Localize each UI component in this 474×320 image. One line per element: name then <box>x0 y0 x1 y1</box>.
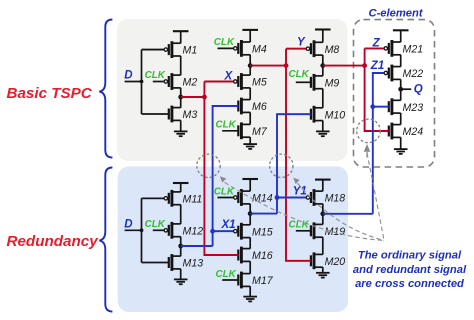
svg-text:Q: Q <box>414 83 423 95</box>
svg-text:Y: Y <box>297 36 306 48</box>
svg-text:CLK: CLK <box>214 37 235 48</box>
svg-text:M8: M8 <box>325 44 340 56</box>
svg-text:CLK: CLK <box>216 269 237 280</box>
wire M14 source to node Y1 <box>249 204 251 214</box>
svg-text:M3: M3 <box>183 109 198 121</box>
wire node to M15 drain <box>249 214 251 225</box>
wire M20 source to ground <box>322 267 324 272</box>
transistor M12 (PMOS) <box>153 222 181 239</box>
transistor M11 (PMOS) <box>142 190 181 207</box>
wire M10 source to ground <box>322 121 324 131</box>
node Q <box>398 87 403 92</box>
ground redundant stage 1 <box>174 279 188 284</box>
svg-text:Redundancy: Redundancy <box>7 233 100 250</box>
wire M13 source to ground <box>180 269 182 279</box>
wire M18 source to node Z1 <box>322 204 324 214</box>
svg-text:M23: M23 <box>403 102 424 114</box>
transistor M22 (PMOS) <box>373 65 401 82</box>
wire node Y to M5 drain <box>249 66 251 76</box>
transistor M1 (PMOS) <box>142 41 181 58</box>
wire M21 source to M22 drain <box>400 55 402 67</box>
svg-text:CLK: CLK <box>145 219 166 230</box>
wire M4 source to node Y <box>249 55 251 66</box>
dashed leader line to Z/Z1 circle <box>367 153 384 240</box>
svg-text:C-element: C-element <box>369 8 424 20</box>
node stage 3 output Z <box>320 63 325 68</box>
svg-text:The ordinary signal: The ordinary signal <box>358 250 462 262</box>
wire D input (bottom) <box>125 229 142 231</box>
transistor M18 (PMOS) <box>277 189 323 206</box>
svg-text:CLK: CLK <box>289 69 310 80</box>
wire M11 source to M12 drain <box>180 205 182 224</box>
svg-text:are cross connected: are cross connected <box>355 278 465 290</box>
transistor M21 (PMOS) <box>365 40 401 57</box>
arrowhead pointing to X/X1 circle <box>220 176 226 182</box>
ground redundant stage 2 <box>243 297 257 302</box>
wire M2 source to M3 drain (node X origin) <box>180 88 182 108</box>
transistor M16 (NMOS) <box>204 247 250 264</box>
transistor M5 (PMOS) <box>204 73 250 90</box>
wire M23 source to M24 drain <box>400 113 402 125</box>
transistor M2 (PMOS) <box>153 73 181 90</box>
transistor M20 (NMOS) <box>286 252 323 269</box>
vdd rail redundant stage 3 <box>315 180 331 192</box>
wire M8 source to node Z <box>322 55 324 66</box>
transistor M23 (NMOS) <box>373 98 401 115</box>
wire D input (top) <box>125 81 142 83</box>
wire M6 source to M7 drain <box>249 112 251 124</box>
svg-text:Basic TSPC: Basic TSPC <box>7 85 93 102</box>
wire D gate bus stage 1 <box>142 50 164 114</box>
svg-text:CLK: CLK <box>145 70 166 81</box>
node X junction <box>202 95 207 100</box>
transistor M10 (NMOS) <box>277 106 323 123</box>
brace for Basic TSPC section <box>99 20 112 158</box>
wire net X1 (blue): redundant stage1 output up to M15 gate and M6 gate <box>181 106 239 246</box>
dashed circle cross-connection Z/Z1 <box>357 119 381 143</box>
wire M5 source to M6 drain <box>249 88 251 100</box>
background panel Redundancy (blue rounded box) <box>118 167 348 313</box>
node X1 junction <box>210 229 215 234</box>
C-element dashed box <box>354 20 435 167</box>
node redundant stage 2 output <box>248 211 253 216</box>
wire net X (red): stage1 output to M5 gate and down to M16 gate <box>181 82 239 256</box>
vdd rail stage 1 <box>173 31 189 43</box>
svg-text:M2: M2 <box>183 77 198 89</box>
dashed circle cross-connection X/X1 <box>197 154 220 177</box>
node D junction (bottom) <box>140 228 144 232</box>
svg-text:M24: M24 <box>403 126 424 138</box>
transistor M19 (NMOS) <box>296 222 323 239</box>
svg-text:CLK: CLK <box>214 186 235 197</box>
node Z junction <box>362 63 367 68</box>
svg-text:X1: X1 <box>221 219 236 231</box>
transistor M14 (PMOS) <box>218 189 251 206</box>
wire M12 source to M13 drain <box>180 237 182 257</box>
svg-text:M14: M14 <box>252 193 273 205</box>
svg-text:and redundant signal: and redundant signal <box>353 264 467 276</box>
transistor M15 (PMOS) <box>213 223 251 240</box>
wire net Y1 (blue): redundant stage2 output up to M18 gate and M10 gate <box>250 114 311 213</box>
wire net Y (red): stage2 output to M8 gate and down to M20 gate <box>250 49 311 261</box>
wire M7 source to ground <box>249 137 251 143</box>
ground stage 3 <box>316 131 330 136</box>
wire M15 source to M16 drain <box>249 238 251 249</box>
svg-text:D: D <box>124 218 132 230</box>
wire M17 source to ground <box>249 286 251 296</box>
dashed leader line to Y/Y1 circle <box>298 183 385 240</box>
svg-text:M10: M10 <box>325 109 346 121</box>
node redundant stage 1 output <box>178 244 183 249</box>
svg-text:M18: M18 <box>325 193 346 205</box>
transistor M8 (PMOS) <box>286 40 323 57</box>
transistor M24 (NMOS) <box>365 123 401 140</box>
transistor M6 (NMOS) <box>213 98 251 115</box>
svg-text:M5: M5 <box>252 77 267 89</box>
svg-text:X: X <box>224 70 234 82</box>
wire M3 source to ground <box>180 120 182 131</box>
svg-text:M7: M7 <box>252 126 268 138</box>
dashed leader line to X/X1 circle <box>225 182 385 240</box>
wire M16 source to M17 drain <box>249 261 251 273</box>
wire node Z to M9 drain <box>322 66 324 76</box>
transistor M13 (NMOS) <box>142 254 181 271</box>
vdd rail C-element <box>393 30 409 42</box>
svg-text:M15: M15 <box>252 226 273 238</box>
svg-text:M9: M9 <box>325 77 340 89</box>
transistor M3 (NMOS) <box>142 106 181 123</box>
vdd rail redundant stage 1 <box>173 183 189 192</box>
wire M24 source to ground <box>400 137 402 148</box>
ground stage 2 <box>243 144 257 149</box>
node Z1 junction <box>370 104 375 109</box>
wire net Z1 (blue): redundant stage3 output up to M22 gate and M23 gate <box>323 73 389 214</box>
transistor M4 (PMOS) <box>218 40 251 57</box>
ground C-element <box>394 149 408 154</box>
vdd rail stage 3 <box>315 30 331 43</box>
svg-text:CLK: CLK <box>216 120 237 131</box>
ground stage 1 <box>174 131 188 136</box>
arrowhead pointing to Y/Y1 circle <box>293 178 299 184</box>
node D junction (top) <box>140 80 144 84</box>
node redundant stage 3 output <box>320 211 325 216</box>
svg-text:D: D <box>124 70 132 82</box>
dashed circle cross-connection Y/Y1 <box>270 154 293 177</box>
svg-text:M17: M17 <box>252 275 274 287</box>
svg-text:M4: M4 <box>252 44 267 56</box>
svg-text:M20: M20 <box>325 256 346 268</box>
wire M22 source to node Q <box>400 79 402 100</box>
wire node to M19 drain <box>322 214 324 225</box>
node Y1 junction <box>275 195 280 200</box>
node stage 2 output Y <box>248 63 253 68</box>
transistor M9 (NMOS) <box>296 74 323 91</box>
svg-text:M22: M22 <box>403 68 424 80</box>
vdd rail redundant stage 2 <box>242 179 258 191</box>
background panel Basic TSPC (gray rounded box) <box>117 19 348 161</box>
wire D gate bus redundant stage 1 <box>142 198 164 262</box>
vdd rail stage 2 <box>242 30 258 42</box>
svg-text:Z1: Z1 <box>370 60 384 72</box>
svg-text:M11: M11 <box>183 193 203 205</box>
wire net Z (red): stage3 output to M21 gate and down to M24 gate <box>323 48 389 131</box>
node Y junction <box>284 63 289 68</box>
transistor M7 (NMOS) <box>222 122 250 139</box>
wire M9 source to M10 drain <box>322 89 324 108</box>
arrowhead pointing to Z/Z1 circle <box>364 144 371 152</box>
svg-text:M13: M13 <box>183 258 204 270</box>
transistor M17 (NMOS) <box>222 272 250 289</box>
wire M19 source to M20 drain <box>322 237 324 254</box>
brace for Redundancy section <box>99 168 112 312</box>
node stage 1 output <box>178 95 183 100</box>
svg-text:M21: M21 <box>403 44 424 56</box>
wire node Q stub <box>401 88 412 90</box>
wire M1 source to M2 drain <box>180 56 182 75</box>
svg-text:M1: M1 <box>183 45 198 57</box>
svg-text:M16: M16 <box>252 250 273 262</box>
svg-text:M6: M6 <box>252 101 267 113</box>
svg-text:M12: M12 <box>183 225 204 237</box>
ground redundant stage 3 <box>316 273 330 278</box>
